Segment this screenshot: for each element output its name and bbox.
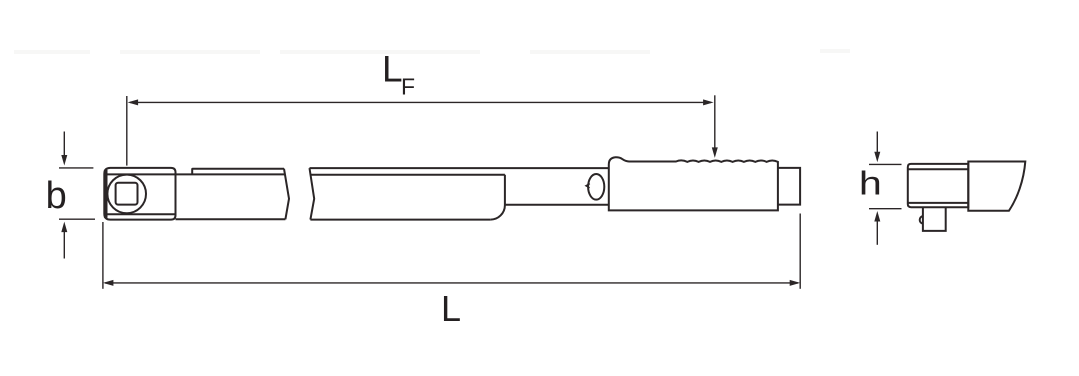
LF vertical pointer line: [714, 95, 716, 149]
detail tang detent ball: [920, 216, 923, 224]
body segment 2 bottom line: [310, 219, 490, 221]
L right arrowhead: [790, 280, 801, 286]
faint scan artifacts: [14, 49, 850, 54]
LF dimension line: [130, 101, 711, 103]
svg-text:b: b: [46, 175, 67, 217]
svg-text:h: h: [859, 164, 882, 201]
LF down arrowhead: [712, 147, 718, 158]
body segment 1 raised strip: [192, 169, 284, 175]
L extension line right: [799, 214, 801, 289]
LF left arrowhead: [128, 99, 139, 105]
LF extension line left: [126, 96, 128, 166]
oval notch pointer: [586, 184, 590, 188]
detail head box outline: [908, 164, 969, 207]
body segment 2 top inner line: [311, 174, 505, 176]
end cap: [778, 168, 800, 205]
h bottom arrowhead: [874, 211, 880, 222]
square drive circle: [107, 175, 146, 214]
wrench head inner bottom line: [106, 213, 175, 215]
b extension line top: [59, 167, 93, 169]
body segment 2 top outer line: [310, 167, 609, 169]
body segment 2 right edge with fillet: [490, 175, 505, 220]
body segment 1 bottom line: [176, 218, 286, 220]
svg-text:F: F: [401, 74, 415, 100]
square drive square: [116, 183, 138, 205]
detail body with curved break edge: [968, 162, 1025, 211]
detail square tang: [923, 207, 946, 231]
body segment 1 top line: [176, 173, 285, 175]
detail head inner top line: [909, 168, 969, 170]
b top arrow line: [63, 132, 65, 157]
L left arrowhead: [103, 280, 114, 286]
h extension line top: [869, 163, 902, 165]
break edge of segment 1: [284, 169, 289, 220]
b top arrowhead: [61, 155, 67, 166]
dimension lines: [59, 95, 902, 288]
L extension line left: [102, 222, 104, 289]
L dimension line: [105, 282, 798, 284]
h extension line bottom: [869, 208, 902, 210]
LF right arrowhead: [703, 99, 714, 105]
h bottom arrow line: [876, 221, 878, 245]
h top arrow line: [876, 132, 878, 153]
grip outline with wavy top: [609, 157, 778, 210]
svg-text:L: L: [382, 49, 403, 90]
oval window: [588, 174, 604, 200]
wrench head thick left edge: [104, 170, 108, 218]
b bottom arrowhead: [61, 222, 67, 233]
detail head inner bottom line: [909, 202, 969, 204]
svg-text:L: L: [441, 288, 461, 329]
wrench head outline: [104, 168, 175, 220]
b extension line bottom: [59, 218, 95, 220]
h top arrowhead: [874, 152, 880, 163]
shaft bottom line: [505, 204, 609, 206]
break edge of segment 2: [310, 168, 315, 220]
b bottom arrow line: [63, 231, 65, 259]
wrench head inner top line: [106, 173, 175, 175]
